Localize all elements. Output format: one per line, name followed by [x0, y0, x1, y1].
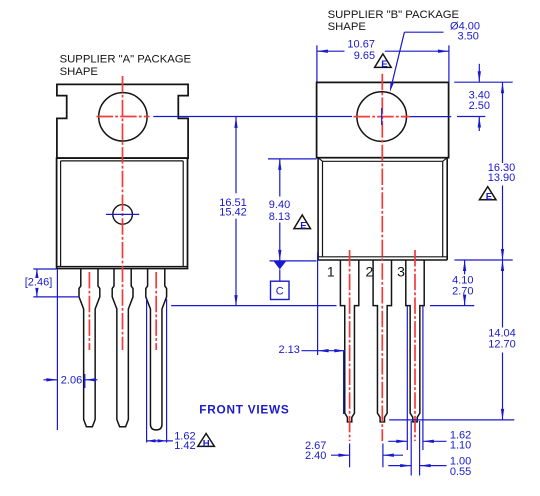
package A hole horizontal centerline [97, 116, 150, 118]
svg-text:3.50: 3.50 [457, 31, 478, 43]
package A lead 2 [112, 269, 133, 427]
flag note E for 16.30 [479, 187, 496, 203]
package B pin 3 centerline [414, 250, 416, 441]
dimension 2.06 [44, 269, 98, 430]
hole centerline extension wire [153, 116, 451, 118]
package B pin 2 label [366, 264, 374, 280]
svg-text:FRONT VIEWS: FRONT VIEWS [199, 403, 289, 417]
svg-text:E: E [300, 220, 307, 231]
dimension 9.40/8.13 [268, 159, 317, 261]
package B hole horizontal centerline [354, 116, 411, 118]
svg-text:2.40: 2.40 [305, 450, 326, 462]
svg-text:SHAPE: SHAPE [328, 21, 367, 33]
svg-text:E: E [486, 192, 493, 203]
dimension 3.40/2.50 [454, 64, 513, 131]
package A lead 1 centerline [88, 272, 90, 350]
package B pin 3 label [397, 264, 405, 280]
dimension [2.46] [25, 269, 79, 297]
package B pin 2 outline [373, 260, 391, 422]
package B pin 3 outline [406, 260, 424, 422]
package A lead 3 centerline [155, 272, 157, 350]
svg-text:2.50: 2.50 [469, 100, 490, 112]
dimension 2.13 [278, 253, 345, 357]
package A mounting hole [99, 93, 147, 141]
svg-text:SUPPLIER "A" PACKAGE: SUPPLIER "A" PACKAGE [60, 53, 192, 65]
svg-text:E: E [381, 59, 388, 70]
svg-text:15.42: 15.42 [219, 207, 247, 219]
flag note E for 10.67 [375, 54, 392, 70]
package B hole center mark [381, 108, 383, 125]
dimension 1.62/1.10 [388, 306, 471, 452]
svg-text:SHAPE: SHAPE [60, 66, 99, 78]
flag note E for 9.40 [294, 215, 311, 231]
package A small hole blue center mark [106, 213, 139, 215]
FRONT VIEWS label [199, 403, 289, 417]
dimension 1.00/0.55 [388, 421, 471, 478]
svg-text:8.13: 8.13 [269, 211, 290, 223]
svg-text:C: C [276, 286, 284, 298]
svg-text:1.42: 1.42 [174, 440, 195, 452]
svg-text:3: 3 [397, 264, 405, 280]
package A lead 3 [146, 269, 167, 430]
package B pin 1 centerline [349, 250, 351, 441]
package A vertical centerline [122, 76, 124, 350]
dimension Ø4.00/3.50 leader [390, 20, 480, 92]
svg-text:2: 2 [366, 264, 374, 280]
svg-text:9.40: 9.40 [269, 199, 290, 211]
pin 1 edge extension wire [343, 351, 345, 414]
svg-text:1.10: 1.10 [450, 440, 471, 452]
svg-text:9.65: 9.65 [354, 50, 375, 62]
package A body center hole [113, 205, 133, 225]
shoulder bottom extension wire [171, 305, 336, 307]
package A body outline [57, 158, 188, 268]
package B vertical centerline [381, 74, 383, 441]
dimension 2.67/2.40 [305, 440, 403, 467]
package B mounting tab outline [317, 82, 449, 157]
svg-text:2.70: 2.70 [452, 285, 473, 297]
svg-text:SUPPLIER "B" PACKAGE: SUPPLIER "B" PACKAGE [328, 9, 460, 21]
package B pin 1 label [327, 264, 335, 280]
svg-text:0.55: 0.55 [450, 466, 471, 478]
dimension 14.04/12.70 [389, 260, 516, 420]
package B body outline [318, 158, 447, 260]
svg-text:13.90: 13.90 [488, 172, 516, 184]
dimension 16.30/13.90 [488, 82, 516, 260]
package B title text [328, 9, 460, 33]
dimension 4.10/2.70 [430, 260, 513, 306]
svg-text:2.06: 2.06 [61, 375, 82, 387]
dimension 10.67/9.65 [317, 39, 449, 82]
package A mounting tab outline [57, 84, 188, 158]
svg-text:12.70: 12.70 [488, 339, 516, 351]
package A title text [60, 53, 192, 77]
flag note H for 1.62 [198, 434, 215, 450]
dimension 16.51/15.42 [219, 117, 247, 306]
package B pin 1 outline [340, 260, 358, 422]
svg-text:2.13: 2.13 [278, 344, 299, 356]
svg-text:[2.46]: [2.46] [25, 277, 53, 289]
package B mounting hole [357, 92, 407, 142]
svg-text:1: 1 [327, 264, 335, 280]
svg-text:H: H [203, 439, 210, 450]
dimension 1.62/1.42 [147, 299, 196, 452]
svg-text:10.67: 10.67 [347, 39, 375, 51]
package A lead 1 [79, 269, 100, 427]
datum C symbol [271, 262, 290, 300]
